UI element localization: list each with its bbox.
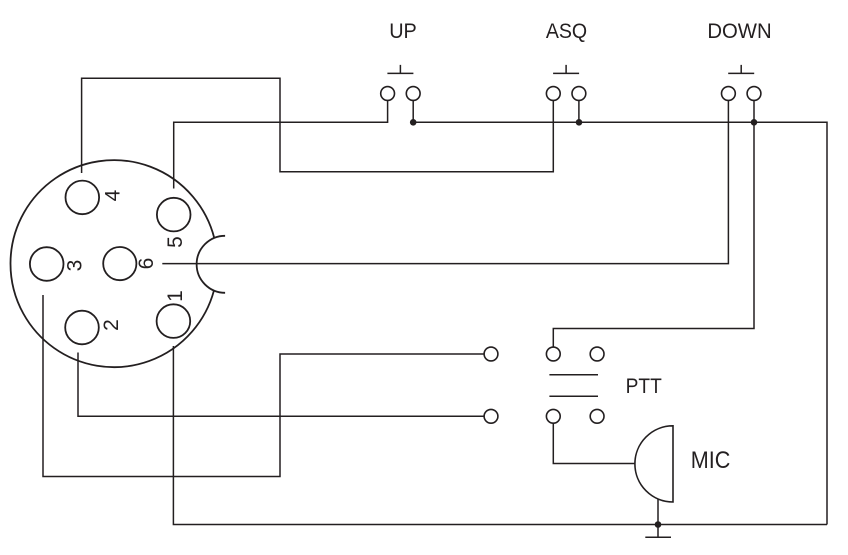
wire DOWN right terminal to PTT top left [553, 100, 754, 347]
PTT switch contact bars [549, 375, 598, 397]
wire pin 3 to upper left terminal [43, 295, 484, 477]
junction dot bottom bus [655, 521, 662, 528]
junction dot UP right [410, 119, 417, 126]
wire PTT bottom left to MIC [553, 423, 635, 463]
pushbutton DOWN actuator [728, 65, 754, 74]
wire pin 5 to UP left terminal [174, 100, 388, 188]
wire pin 1 to bottom bus [173, 346, 827, 525]
pushbutton DOWN right terminal [747, 87, 761, 101]
pushbutton UP right terminal [406, 87, 420, 101]
wire pin 4 to ASQ left terminal [82, 78, 554, 173]
junction dot ASQ right [576, 119, 583, 126]
PTT switch bottom right terminal [590, 409, 604, 423]
svg-text:1: 1 [164, 290, 187, 302]
pushbutton DOWN left terminal [722, 87, 736, 101]
terminal lower left open circle [484, 409, 498, 423]
wire top bus to right edge [413, 122, 827, 524]
pushbutton ASQ right terminal [572, 87, 586, 101]
terminal upper left open circle [484, 347, 498, 361]
wire pin 2 to lower left terminal [78, 353, 484, 417]
pin 2 [65, 311, 99, 345]
ground [645, 525, 671, 538]
svg-text:DOWN: DOWN [707, 20, 771, 43]
microphone MIC [635, 426, 673, 502]
wire pin 6 to DOWN left terminal [162, 100, 728, 263]
connector J1 outline [11, 160, 215, 367]
pin 1 [157, 304, 191, 338]
connector J1 key notch [197, 236, 225, 293]
pin 6 [103, 247, 136, 280]
svg-text:3: 3 [64, 260, 87, 272]
svg-text:PTT: PTT [626, 375, 662, 398]
svg-text:2: 2 [100, 319, 123, 331]
svg-text:5: 5 [164, 236, 187, 248]
wire ASQ right terminal drop [578, 100, 580, 122]
svg-text:6: 6 [135, 258, 158, 270]
PTT switch bottom left terminal [546, 409, 560, 423]
wire MIC to bottom bus [657, 499, 659, 525]
PTT switch top right terminal [590, 347, 604, 361]
svg-text:4: 4 [102, 189, 125, 201]
junction dot DOWN right [751, 119, 758, 126]
pin 4 [66, 181, 100, 215]
PTT switch top left terminal [546, 347, 560, 361]
pushbutton ASQ actuator [553, 65, 579, 74]
pushbutton UP actuator [387, 65, 413, 74]
pin 5 [157, 198, 191, 232]
pushbutton UP left terminal [381, 87, 395, 101]
pin 3 [30, 247, 64, 281]
svg-text:MIC: MIC [691, 447, 731, 474]
wire UP right terminal drop [412, 100, 414, 122]
svg-text:ASQ: ASQ [546, 20, 587, 43]
svg-text:UP: UP [389, 20, 417, 43]
pushbutton ASQ left terminal [546, 87, 560, 101]
